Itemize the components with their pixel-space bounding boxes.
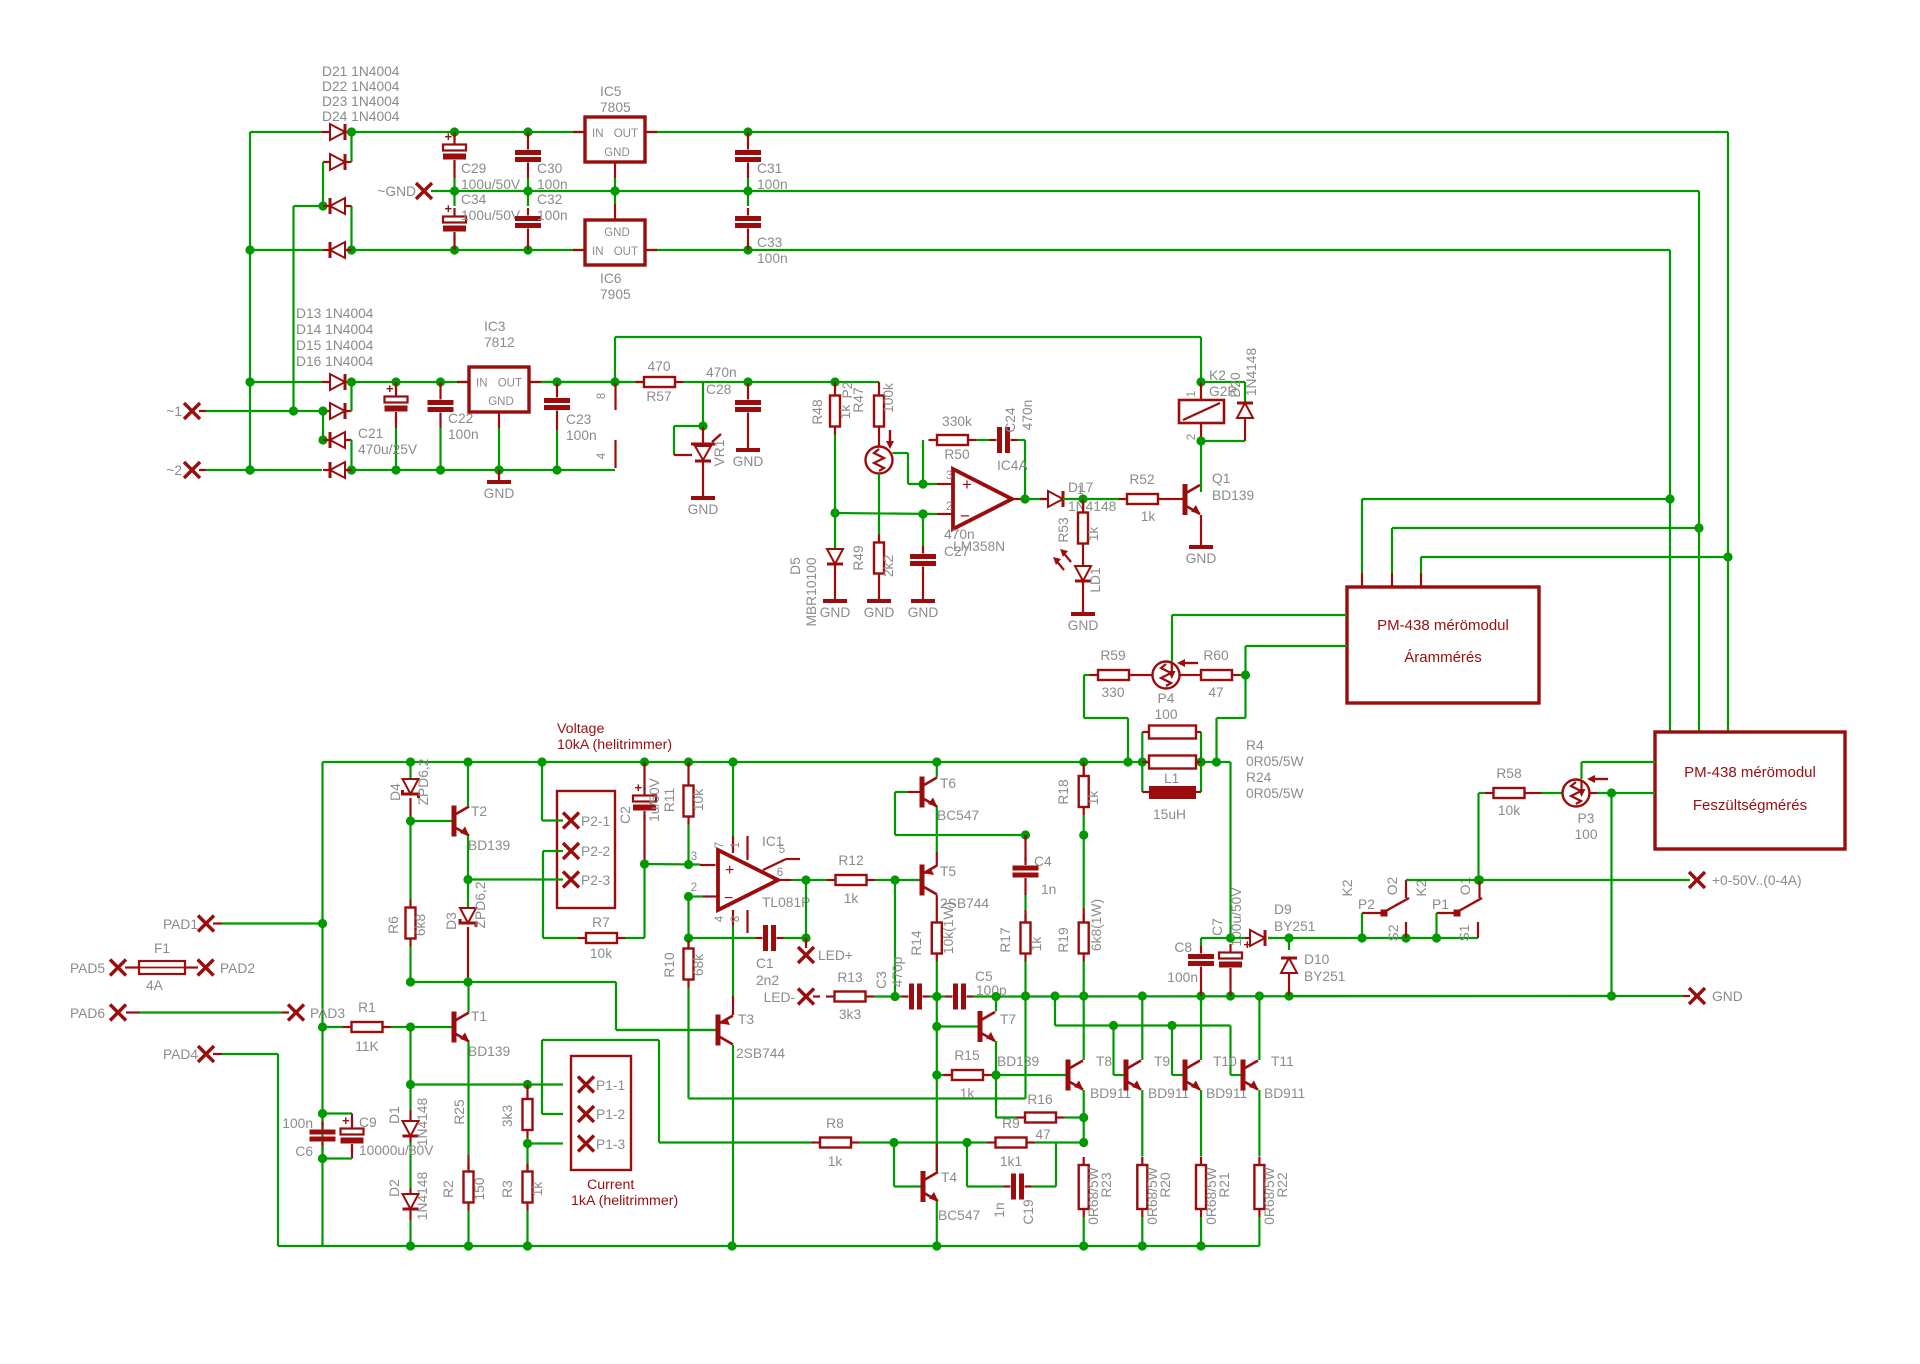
- svg-text:R18: R18: [1056, 779, 1071, 805]
- wire noninv input net: [645, 860, 716, 869]
- svg-text:R59: R59: [1100, 648, 1126, 663]
- svg-text:R53: R53: [1056, 517, 1071, 543]
- svg-text:BD911: BD911: [1264, 1086, 1305, 1101]
- wire T2 emitter: [463, 836, 472, 884]
- switch K2 contact O2: [1340, 877, 1409, 917]
- resistor R13 3k3: [826, 970, 895, 1022]
- svg-text:T8: T8: [1096, 1054, 1112, 1069]
- resistor R8 1k: [812, 1116, 899, 1169]
- svg-text:D22 1N4004: D22 1N4004: [322, 79, 400, 94]
- throw S2 stub: [1386, 922, 1406, 941]
- wire to P2-3: [468, 878, 563, 880]
- svg-text:C29: C29: [461, 161, 487, 176]
- transistor T5 2SB744: [920, 864, 990, 911]
- svg-text:C32: C32: [537, 192, 562, 207]
- label C27: [944, 527, 975, 559]
- label C23: [566, 412, 597, 443]
- node ~1 pad: [166, 206, 322, 419]
- svg-text:470n: 470n: [706, 365, 737, 380]
- label C4: [1034, 854, 1056, 897]
- wire T8 collector: [1083, 996, 1085, 1060]
- svg-text:4A: 4A: [146, 978, 164, 993]
- svg-text:150: 150: [472, 1177, 487, 1200]
- wire T10 emitter: [1200, 1090, 1202, 1157]
- wire PAD4 to bus: [222, 1054, 323, 1246]
- svg-text:BD139: BD139: [468, 838, 511, 853]
- svg-text:470: 470: [647, 359, 670, 374]
- svg-text:Current: Current: [587, 1177, 634, 1193]
- svg-text:D1: D1: [387, 1106, 402, 1124]
- svg-text:P2-3: P2-3: [581, 873, 610, 888]
- svg-text:GND: GND: [604, 147, 630, 159]
- wire R12 to C3: [890, 880, 899, 1001]
- svg-text:+: +: [445, 201, 453, 216]
- svg-text:R12: R12: [838, 853, 863, 868]
- label D2: [387, 1172, 430, 1221]
- svg-text:GND: GND: [908, 605, 939, 620]
- svg-text:R4: R4: [1246, 738, 1264, 753]
- wire T8 emitter: [1079, 1090, 1088, 1147]
- svg-text:ZPD6,2: ZPD6,2: [473, 882, 488, 929]
- resistor R15 1k: [937, 1048, 1001, 1101]
- svg-text:IC5: IC5: [600, 84, 622, 99]
- wire to P2-2: [543, 851, 578, 938]
- svg-text:15uH: 15uH: [1153, 807, 1186, 822]
- svg-text:100n: 100n: [566, 428, 597, 443]
- capacitor C5 100p: [946, 969, 1008, 1010]
- label D4: [388, 759, 431, 806]
- resistor R6 6k8: [386, 821, 428, 982]
- capacitor C27 470n: [910, 509, 936, 601]
- transistor T6 BC547: [920, 776, 980, 823]
- resistor R53 1k: [1056, 499, 1101, 566]
- svg-text:R48: R48: [810, 399, 825, 425]
- wire agnd vertical: [1694, 191, 1703, 732]
- zener D3 ZPD6,2: [460, 880, 476, 983]
- node PAD2: [198, 960, 255, 977]
- svg-text:OUT: OUT: [614, 128, 638, 140]
- svg-text:L1: L1: [1164, 771, 1179, 786]
- capacitor C2 1u/50V: [633, 762, 656, 869]
- svg-text:C28: C28: [706, 382, 732, 397]
- capacitor C33 100n: [735, 191, 761, 250]
- svg-text:D10: D10: [1304, 952, 1330, 967]
- svg-text:D4: D4: [388, 783, 403, 801]
- wire left column: [318, 762, 327, 1246]
- svg-text:LD1: LD1: [1088, 567, 1103, 592]
- svg-text:IC3: IC3: [484, 319, 506, 334]
- svg-text:T4: T4: [941, 1170, 957, 1185]
- svg-text:2n2: 2n2: [756, 973, 779, 988]
- wire +5V vertical: [1723, 132, 1732, 732]
- svg-text:330k: 330k: [942, 414, 972, 429]
- svg-text:P2-2: P2-2: [581, 844, 610, 859]
- diode D14 1N4004: [318, 382, 351, 440]
- svg-text:BC547: BC547: [938, 1208, 980, 1223]
- svg-text:BC547: BC547: [937, 808, 979, 823]
- ground VR1: [688, 498, 719, 517]
- IC3 7812 regulator: [457, 367, 541, 470]
- svg-text:2: 2: [691, 882, 697, 894]
- shunt regulator VR1: [674, 382, 721, 498]
- resistor R19 6k8(1W): [1056, 835, 1104, 996]
- wire rail to output column: [1229, 762, 1231, 938]
- svg-text:100n: 100n: [1167, 970, 1198, 985]
- svg-text:1k1: 1k1: [1000, 1154, 1022, 1169]
- capacitor C23 100n: [544, 382, 570, 470]
- svg-text:3: 3: [691, 851, 697, 863]
- label L1: [1153, 771, 1186, 822]
- wire +rail from bridge to IC5 and right edge: [250, 131, 1728, 133]
- svg-text:D3: D3: [444, 912, 459, 930]
- svg-text:+: +: [342, 1113, 350, 1128]
- label D10: [1304, 952, 1345, 984]
- wire ammeter pin2: [1392, 528, 1699, 587]
- svg-text:7905: 7905: [600, 287, 631, 302]
- svg-text:4: 4: [714, 915, 726, 922]
- svg-text:100n: 100n: [537, 177, 568, 192]
- resistor R23 0R68/5W: [1079, 1157, 1114, 1246]
- svg-text:1n: 1n: [1041, 882, 1056, 897]
- wire O2 pole down: [1361, 913, 1363, 938]
- svg-text:2SB744: 2SB744: [736, 1046, 785, 1061]
- label IC5: [600, 84, 631, 115]
- svg-text:IC6: IC6: [600, 271, 622, 286]
- svg-text:1k: 1k: [828, 1154, 843, 1169]
- transistor T1 BD139: [411, 1009, 511, 1059]
- zener D4 ZPD6,2: [403, 762, 419, 826]
- svg-text:R21: R21: [1217, 1172, 1232, 1197]
- label C2: [618, 777, 662, 823]
- svg-text:MBR10100: MBR10100: [804, 557, 819, 626]
- node PAD1: [163, 916, 323, 933]
- ground R49: [864, 601, 895, 620]
- capacitor C1 2n2: [689, 925, 811, 951]
- wire T3 emitter top: [732, 996, 734, 1015]
- svg-text:R15: R15: [954, 1048, 980, 1063]
- svg-text:1k: 1k: [1086, 791, 1101, 806]
- svg-text:470p: 470p: [890, 956, 905, 987]
- svg-text:100n: 100n: [282, 1116, 313, 1131]
- label VR1: [712, 440, 727, 467]
- svg-text:3k3: 3k3: [839, 1007, 862, 1022]
- svg-text:GND: GND: [1186, 551, 1217, 566]
- capacitor C22 100n: [428, 382, 454, 470]
- pin2 input IC1: [684, 882, 718, 901]
- wire R8 to R9: [894, 1138, 972, 1147]
- IC5 7805 regulator: [573, 117, 657, 191]
- label C28: [706, 365, 737, 397]
- pin8 stub IC1: [730, 910, 748, 933]
- wire R58 down to output: [1474, 793, 1483, 885]
- node P2-1 pad: [563, 813, 610, 830]
- node P2-3 pad: [563, 872, 610, 889]
- wire T11 emitter: [1258, 1090, 1260, 1157]
- pin1 stub IC1: [730, 836, 748, 860]
- wire ammeter left pin2: [1246, 646, 1348, 675]
- wire T10 base drop: [1172, 1026, 1183, 1076]
- svg-text:R14: R14: [909, 930, 924, 956]
- svg-text:R3: R3: [500, 1180, 515, 1198]
- svg-text:1kA (helitrimmer): 1kA (helitrimmer): [571, 1193, 678, 1209]
- svg-text:6k8(1W): 6k8(1W): [1089, 899, 1104, 951]
- svg-text:IC4A: IC4A: [997, 458, 1028, 473]
- capacitor C4 1n: [1013, 835, 1039, 910]
- wire relay drop: [1196, 337, 1205, 387]
- svg-text:IN: IN: [592, 246, 604, 258]
- svg-text:1: 1: [1186, 391, 1198, 397]
- svg-text:47: 47: [1208, 685, 1223, 700]
- svg-text:C33: C33: [757, 235, 783, 250]
- ground D5: [820, 601, 851, 620]
- wire P3 wiper to module: [1582, 762, 1656, 779]
- wire T6 collector: [936, 762, 938, 777]
- wire ammeter pin3: [1421, 557, 1728, 587]
- svg-text:P1-3: P1-3: [596, 1137, 625, 1152]
- svg-text:330: 330: [1101, 685, 1124, 700]
- svg-text:PAD6: PAD6: [70, 1006, 105, 1021]
- label C22: [448, 411, 479, 442]
- svg-text:C34: C34: [461, 192, 487, 207]
- svg-text:IN: IN: [476, 378, 488, 390]
- capacitor C31 100n: [735, 127, 761, 191]
- wire -rail IC6 row: [250, 245, 1670, 254]
- resistor R50 330k: [923, 414, 977, 484]
- node +0-50V output pad: [1689, 872, 1802, 888]
- svg-text:D24 1N4004: D24 1N4004: [322, 109, 400, 124]
- svg-text:R19: R19: [1056, 927, 1071, 953]
- svg-text:P2-1: P2-1: [581, 814, 610, 829]
- svg-text:C21: C21: [358, 426, 383, 441]
- wire T11 collector: [1258, 996, 1260, 1060]
- svg-text:C3: C3: [874, 971, 889, 989]
- svg-text:R60: R60: [1203, 648, 1229, 663]
- svg-text:C24: C24: [1003, 407, 1018, 433]
- svg-text:+: +: [962, 475, 972, 494]
- potentiometer P3 100: [1533, 775, 1608, 842]
- svg-text:BY251: BY251: [1274, 919, 1315, 934]
- svg-text:C23: C23: [566, 412, 592, 427]
- pin stub 4 IC1 supply: [596, 440, 616, 468]
- label D13-D16 stack: [296, 306, 374, 369]
- capacitor C30 100n: [515, 127, 541, 191]
- transistor T7 BD139: [932, 1011, 1039, 1069]
- svg-text:1N4148: 1N4148: [415, 1172, 430, 1221]
- capacitor C29 100u/50V: [443, 127, 466, 191]
- wire base bus: [1055, 996, 1241, 1075]
- svg-text:PAD2: PAD2: [220, 961, 255, 976]
- svg-text:D9: D9: [1274, 902, 1292, 917]
- transistor T10 BD911: [1183, 1054, 1248, 1101]
- svg-text:1k: 1k: [1029, 937, 1044, 952]
- resistor R18 1k: [1056, 762, 1101, 835]
- capacitor C19 1n: [967, 1143, 1056, 1200]
- svg-text:7812: 7812: [484, 335, 515, 350]
- capacitor C6 100n: [282, 1114, 335, 1160]
- label IC6: [600, 271, 631, 302]
- svg-text:10k: 10k: [590, 946, 612, 961]
- svg-text:P1-1: P1-1: [596, 1078, 625, 1093]
- wire T4 base: [894, 1143, 921, 1187]
- svg-text:~1: ~1: [166, 404, 182, 419]
- svg-text:R1: R1: [358, 1000, 376, 1015]
- svg-text:C4: C4: [1034, 854, 1052, 869]
- svg-text:GND: GND: [820, 605, 851, 620]
- svg-text:C6: C6: [295, 1144, 313, 1159]
- transistor T8 BD911: [1066, 1054, 1132, 1101]
- wire Q1 emitter to gnd: [1200, 515, 1202, 547]
- svg-text:VR1: VR1: [712, 440, 727, 467]
- switch K2 contact O1: [1414, 875, 1484, 916]
- opamp IC4A LM358N: [937, 469, 1083, 529]
- resistor R48 1k: [810, 382, 853, 513]
- resistor R59 330: [1084, 648, 1138, 700]
- capacitor C7 100u/50V: [1219, 933, 1252, 996]
- potentiometer P4 100: [1138, 659, 1199, 722]
- svg-text:100: 100: [1154, 707, 1177, 722]
- svg-text:D13 1N4004: D13 1N4004: [296, 306, 374, 321]
- svg-text:D20: D20: [1228, 372, 1243, 398]
- svg-text:Q1: Q1: [1212, 471, 1230, 486]
- svg-text:P2: P2: [840, 382, 855, 399]
- svg-text:10k: 10k: [1498, 803, 1520, 818]
- svg-text:T2: T2: [471, 804, 487, 819]
- pin3 label: [691, 851, 697, 863]
- svg-text:OUT: OUT: [498, 378, 522, 390]
- svg-text:100u/50V: 100u/50V: [461, 208, 521, 223]
- resistor R16 47: [1017, 1092, 1089, 1142]
- wire gnd rail to pad: [1289, 995, 1683, 997]
- pin4 V- IC1: [714, 910, 733, 996]
- svg-text:C2: C2: [618, 806, 633, 824]
- resistor R47 100k: [851, 382, 896, 446]
- wire relay feed: [615, 337, 1201, 382]
- svg-text:BD139: BD139: [468, 1044, 511, 1059]
- wire +12V rail: [250, 377, 629, 386]
- svg-text:C7: C7: [1210, 918, 1225, 936]
- diode D13 1N4004: [330, 374, 345, 390]
- resistor R60 47: [1193, 648, 1251, 700]
- svg-text:6: 6: [777, 867, 783, 879]
- svg-text:R22: R22: [1275, 1172, 1290, 1197]
- svg-text:D2: D2: [387, 1179, 402, 1197]
- capacitor C28 470n: [735, 377, 761, 450]
- capacitor C8 100n: [1188, 938, 1214, 996]
- wire T6 base loop: [895, 792, 1088, 840]
- capacitor C34 100u/50V: [443, 191, 466, 250]
- svg-text:T11: T11: [1271, 1054, 1294, 1069]
- label D1: [387, 1098, 430, 1147]
- svg-text:2k2: 2k2: [881, 555, 896, 577]
- label C8: [1167, 940, 1198, 985]
- svg-text:D14 1N4004: D14 1N4004: [296, 322, 374, 337]
- svg-text:R23: R23: [1099, 1172, 1114, 1198]
- svg-text:10k: 10k: [691, 789, 706, 811]
- capacitor C21 470u/25V: [385, 381, 408, 470]
- transistor T2 BD139: [411, 804, 511, 853]
- wire T1 emitter R25: [452, 1042, 469, 1155]
- wire C3 C5 node: [930, 992, 947, 1001]
- transistor T11 BD911: [1241, 1054, 1306, 1101]
- svg-text:OUT: OUT: [614, 246, 638, 258]
- ground C28: [733, 450, 764, 469]
- label C9: [359, 1115, 434, 1158]
- svg-text:R16: R16: [1027, 1092, 1053, 1107]
- svg-text:GND: GND: [484, 486, 515, 501]
- svg-text:10kA (helitrimmer): 10kA (helitrimmer): [557, 737, 672, 753]
- wire C1 to output: [805, 880, 807, 938]
- label C32: [537, 192, 568, 223]
- connector P2 frame: [557, 791, 615, 908]
- wire T4 collector: [936, 1143, 938, 1172]
- svg-text:P3: P3: [1578, 811, 1595, 826]
- node GND output pad: [1683, 988, 1743, 1004]
- label D20: [1228, 348, 1259, 398]
- label IC3: [484, 319, 515, 350]
- resistor R49 2k2: [851, 474, 896, 602]
- IC6 7905 regulator: [573, 191, 657, 265]
- svg-text:PM-438 mérömodul: PM-438 mérömodul: [1684, 764, 1816, 781]
- svg-text:D16 1N4004: D16 1N4004: [296, 354, 374, 369]
- svg-text:470u/25V: 470u/25V: [358, 442, 418, 457]
- led LD1: [1053, 549, 1091, 614]
- svg-text:6k8: 6k8: [413, 914, 428, 937]
- svg-text:100n: 100n: [757, 251, 788, 266]
- capacitor C32 100n: [515, 191, 541, 250]
- svg-text:F1: F1: [154, 941, 170, 956]
- svg-text:0R05/5W: 0R05/5W: [1246, 786, 1304, 801]
- wire ~GND rail: [431, 186, 1699, 195]
- wire T7 collector: [995, 997, 997, 1012]
- resistor R17 1k: [998, 910, 1044, 996]
- throw S1 stub: [1457, 922, 1478, 941]
- svg-text:1N4148: 1N4148: [415, 1098, 430, 1147]
- resistor R22 0R68/5W: [1254, 1157, 1290, 1246]
- wire ammeter pin1: [1362, 499, 1670, 587]
- wire mid column: [932, 997, 941, 1172]
- svg-text:LED+: LED+: [818, 948, 853, 963]
- svg-text:O2: O2: [1385, 877, 1400, 895]
- resistor R2 150: [441, 1155, 487, 1246]
- svg-text:10k(1W): 10k(1W): [941, 902, 956, 954]
- wire T9 emitter: [1141, 1090, 1143, 1157]
- svg-text:3: 3: [946, 470, 952, 482]
- node PAD6: [70, 1005, 126, 1022]
- svg-text:GND: GND: [1068, 618, 1099, 633]
- svg-text:R6: R6: [386, 916, 401, 934]
- diode D17 1N4148: [1040, 480, 1117, 514]
- wire R10 to rail: [689, 988, 1031, 1099]
- svg-text:GND: GND: [488, 396, 514, 408]
- wire main top rail: [323, 757, 1231, 766]
- wire gnd rail lower: [352, 465, 616, 474]
- wire T10 collector: [1200, 996, 1202, 1060]
- svg-text:P1-2: P1-2: [596, 1107, 625, 1122]
- wire zener bottoms net: [406, 977, 716, 1030]
- transistor Q1 BD139: [1183, 471, 1255, 515]
- svg-text:+: +: [635, 780, 643, 795]
- wire emitter rail: [996, 991, 1612, 1000]
- svg-text:C5: C5: [975, 969, 993, 984]
- svg-text:P2: P2: [1358, 897, 1375, 912]
- resistor R21 0R68/5W: [1196, 1157, 1232, 1246]
- svg-text:~2: ~2: [166, 463, 182, 478]
- svg-text:K2: K2: [1209, 368, 1226, 383]
- svg-text:GND: GND: [688, 502, 719, 517]
- svg-text:R11: R11: [662, 788, 677, 812]
- ground Q1: [1186, 547, 1217, 566]
- svg-text:R52: R52: [1129, 472, 1154, 487]
